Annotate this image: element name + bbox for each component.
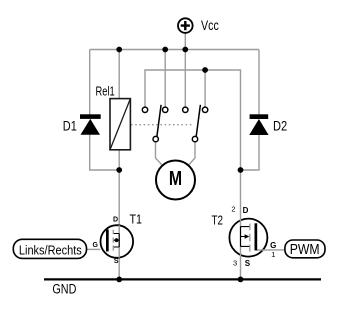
relay switch arm B	[196, 105, 200, 137]
transistor T2 MOSFET	[229, 219, 267, 257]
svg-text:G: G	[93, 242, 99, 249]
svg-text:1: 1	[271, 250, 275, 259]
wire T2 gate to PWM	[267, 249, 285, 251]
svg-text:2: 2	[231, 205, 235, 214]
ground bus GND	[44, 278, 321, 280]
wire motor right lead	[188, 142, 195, 166]
node junction second bus / contact 4	[202, 67, 208, 73]
node junction T2 source / GND	[238, 277, 244, 283]
svg-text:D2: D2	[273, 118, 287, 133]
input box PWM	[285, 240, 325, 258]
svg-text:Vcc: Vcc	[201, 17, 219, 33]
svg-text:3: 3	[233, 258, 237, 267]
transistor T1 MOSFET	[101, 225, 134, 258]
relay contact pole A	[153, 136, 158, 141]
svg-text:GND: GND	[52, 282, 76, 297]
node junction top bus / contact 2	[162, 47, 168, 53]
node junction D2 anode / T2 drain	[238, 167, 244, 173]
svg-text:PWM: PWM	[290, 242, 320, 258]
wire motor left lead	[156, 142, 163, 166]
wire D2 anode to T2 drain node	[241, 135, 260, 170]
wire contact 3 to bus	[184, 50, 186, 108]
wire top bus	[90, 49, 259, 51]
svg-text:M: M	[169, 168, 182, 190]
node junction top bus / relay branch	[116, 47, 122, 53]
node junction D1 anode / relay / T1 drain	[116, 167, 122, 173]
svg-text:D: D	[113, 217, 118, 224]
svg-text:T1: T1	[130, 211, 143, 226]
wire Vcc stem	[184, 33, 186, 50]
wire relay actuator dotted link	[131, 124, 193, 126]
relay contact pole B	[192, 136, 197, 141]
wire left drop to D1 cathode	[89, 50, 91, 115]
diode D2	[249, 114, 268, 135]
svg-text:S: S	[245, 259, 251, 268]
wire contact 2 to bus	[164, 50, 166, 108]
wire right drop to D2 cathode	[258, 50, 260, 115]
svg-text:D1: D1	[63, 118, 77, 133]
svg-text:S: S	[114, 258, 119, 265]
relay contact fixed terminal 4	[202, 107, 207, 112]
relay contact fixed terminal 1	[142, 107, 147, 112]
relay contact fixed terminal 2	[163, 107, 168, 112]
svg-text:Links/Rechts: Links/Rechts	[19, 242, 82, 257]
relay contact fixed terminal 3	[183, 107, 188, 112]
svg-text:D: D	[243, 206, 249, 215]
wire bus to Rel1 coil	[118, 50, 120, 99]
wire contact 4 to second bus	[204, 70, 206, 107]
wire Links/Rechts to T1 gate	[87, 248, 101, 250]
relay switch arm A	[157, 105, 161, 137]
node junction top bus / Vcc / contact 3	[182, 47, 188, 53]
diode D1	[80, 114, 101, 135]
node junction T1 source / GND	[116, 277, 122, 283]
wire D1 anode to node	[90, 135, 120, 170]
wire second bus contact1 to T2 drain	[145, 70, 241, 279]
svg-text:T2: T2	[212, 212, 224, 227]
svg-text:G: G	[270, 241, 276, 250]
input box Links/Rechts	[13, 239, 86, 258]
svg-text:Rel1: Rel1	[96, 83, 115, 98]
relay coil Rel1	[110, 99, 130, 150]
power Vcc symbol	[178, 18, 193, 33]
motor M1	[156, 161, 195, 200]
wire Rel1 coil to T1 drain	[118, 150, 120, 280]
